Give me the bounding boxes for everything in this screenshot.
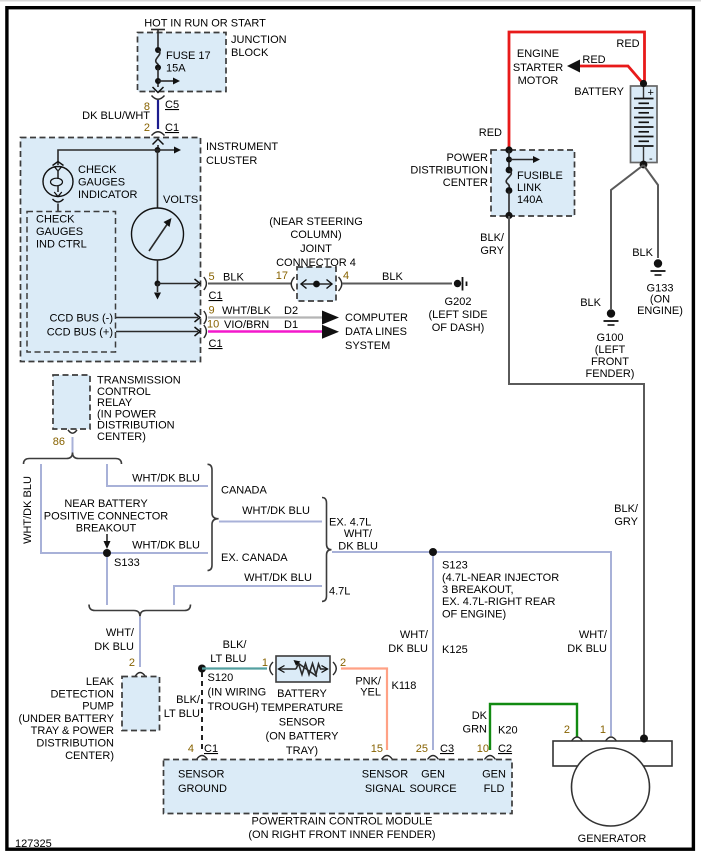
svg-text:G202: G202 bbox=[445, 296, 472, 308]
svg-text:WHT/DK BLU: WHT/DK BLU bbox=[132, 473, 200, 485]
svg-text:WHT/DK BLU: WHT/DK BLU bbox=[244, 572, 312, 584]
svg-text:DK BLU/WHT: DK BLU/WHT bbox=[82, 110, 150, 122]
svg-text:GENERATOR: GENERATOR bbox=[578, 833, 647, 845]
svg-text:PUMP: PUMP bbox=[82, 701, 114, 713]
wire BLK/LT BLU (teal) bbox=[202, 667, 267, 669]
svg-text:ENGINE): ENGINE) bbox=[637, 305, 683, 317]
svg-text:TROUGH): TROUGH) bbox=[208, 701, 259, 713]
brace bottom (gather) bbox=[89, 605, 191, 617]
svg-text:HOT IN RUN OR START: HOT IN RUN OR START bbox=[144, 18, 266, 30]
wire to indicator lamp bbox=[58, 150, 158, 165]
svg-text:140A: 140A bbox=[517, 194, 543, 206]
ground G133 bbox=[651, 259, 666, 275]
ground G202 bbox=[454, 277, 467, 291]
svg-text:(4.7L-NEAR INJECTOR: (4.7L-NEAR INJECTOR bbox=[442, 572, 559, 584]
wire DK BLU/WHT bbox=[157, 100, 159, 129]
svg-text:C5: C5 bbox=[165, 99, 179, 111]
svg-text:CENTER): CENTER) bbox=[65, 750, 114, 762]
svg-text:CLUSTER: CLUSTER bbox=[206, 155, 257, 167]
svg-text:S120: S120 bbox=[208, 672, 234, 684]
svg-text:TRAY): TRAY) bbox=[286, 745, 318, 757]
svg-text:GRY: GRY bbox=[614, 516, 638, 528]
arrowhead exiting junction block bbox=[153, 87, 164, 93]
svg-text:C3: C3 bbox=[440, 743, 454, 755]
svg-text:OF ENGINE): OF ENGINE) bbox=[442, 608, 506, 620]
brace right 2 (engine split) bbox=[322, 498, 332, 602]
svg-text:DK BLU: DK BLU bbox=[338, 541, 378, 553]
battery temperature sensor box bbox=[276, 656, 330, 682]
svg-text:G100: G100 bbox=[597, 332, 624, 344]
lower node bbox=[155, 281, 161, 287]
svg-text:+: + bbox=[648, 87, 654, 99]
svg-text:COMPUTER: COMPUTER bbox=[345, 312, 408, 324]
svg-text:DK BLU: DK BLU bbox=[388, 643, 428, 655]
connector arcs pin 9 bbox=[204, 311, 207, 324]
svg-text:S133: S133 bbox=[114, 557, 140, 569]
svg-text:RED: RED bbox=[582, 54, 605, 66]
wire gauge to lower node bbox=[157, 260, 159, 284]
branch arrow to pin 5 bbox=[158, 283, 199, 285]
generator circle bbox=[572, 748, 650, 826]
svg-text:4: 4 bbox=[343, 270, 349, 282]
junction node with branch arrow bbox=[155, 78, 180, 85]
svg-text:DK: DK bbox=[472, 710, 488, 722]
svg-text:LT BLU: LT BLU bbox=[210, 653, 246, 665]
svg-text:NEAR BATTERY: NEAR BATTERY bbox=[64, 498, 148, 510]
continuation arrow down bbox=[157, 284, 159, 293]
wire EX CANADA from S133 bbox=[107, 552, 208, 554]
connector arc C5 bbox=[152, 96, 165, 100]
svg-text:BLK: BLK bbox=[580, 297, 601, 309]
wire brace1 out bbox=[219, 521, 322, 523]
brace right 1 (canada/ex-canada) bbox=[208, 464, 219, 570]
wire K125 down to PCM bbox=[432, 552, 434, 750]
svg-text:CCD BUS (+): CCD BUS (+) bbox=[47, 327, 113, 339]
wire BLK to G202 bbox=[342, 283, 452, 285]
leak pump pin bump bbox=[135, 673, 146, 677]
svg-text:DETECTION: DETECTION bbox=[50, 688, 114, 700]
starter arrowhead bbox=[567, 60, 580, 73]
svg-text:POWERTRAIN CONTROL MODULE: POWERTRAIN CONTROL MODULE bbox=[252, 816, 433, 828]
svg-text:VOLTS: VOLTS bbox=[163, 194, 198, 206]
svg-text:(LEFT: (LEFT bbox=[595, 344, 626, 356]
wire DK GRN bbox=[490, 704, 577, 750]
svg-text:FRONT: FRONT bbox=[591, 356, 629, 368]
svg-text:OF DASH): OF DASH) bbox=[432, 322, 485, 334]
wire VIO/BRN bbox=[208, 330, 322, 333]
volts gauge bbox=[132, 208, 184, 260]
svg-text:GEN: GEN bbox=[421, 769, 445, 781]
svg-text:TEMPERATURE: TEMPERATURE bbox=[261, 702, 343, 714]
svg-text:CHECK: CHECK bbox=[78, 164, 117, 176]
svg-text:RELAY: RELAY bbox=[97, 397, 133, 409]
svg-text:127325: 127325 bbox=[15, 838, 52, 850]
wire hot bus tick bbox=[151, 29, 165, 31]
arrowhead entering cluster bbox=[153, 139, 164, 145]
check gauges ind ctrl box bbox=[27, 212, 116, 353]
svg-text:SENSOR: SENSOR bbox=[362, 769, 409, 781]
svg-text:EX. 4.7L-RIGHT REAR: EX. 4.7L-RIGHT REAR bbox=[442, 596, 556, 608]
svg-text:WHT/: WHT/ bbox=[344, 528, 373, 540]
svg-text:RED: RED bbox=[479, 127, 502, 139]
wire 4.7L branch bbox=[174, 586, 322, 605]
svg-text:2: 2 bbox=[340, 657, 346, 669]
wire BLK to joint connector bbox=[208, 283, 291, 285]
svg-text:POWER: POWER bbox=[446, 152, 488, 164]
svg-text:86: 86 bbox=[53, 436, 65, 448]
svg-text:CENTER: CENTER bbox=[443, 177, 488, 189]
junction block box bbox=[138, 33, 227, 92]
wire left branch WHT/DK BLU bbox=[41, 464, 107, 553]
svg-text:DISTRIBUTION: DISTRIBUTION bbox=[97, 420, 175, 432]
generator pin bumps bbox=[572, 737, 583, 741]
svg-text:INSTRUMENT: INSTRUMENT bbox=[206, 141, 278, 153]
svg-text:WHT/DK BLU: WHT/DK BLU bbox=[242, 505, 310, 517]
svg-text:17: 17 bbox=[276, 270, 288, 282]
svg-text:BREAKOUT: BREAKOUT bbox=[76, 523, 137, 535]
svg-text:DATA LINES: DATA LINES bbox=[345, 326, 407, 338]
svg-text:K125: K125 bbox=[442, 644, 468, 656]
svg-text:4: 4 bbox=[188, 743, 194, 755]
wire RED to starter bbox=[578, 66, 644, 84]
svg-text:SENSOR: SENSOR bbox=[178, 769, 225, 781]
svg-text:(ON BATTERY: (ON BATTERY bbox=[266, 731, 340, 743]
svg-text:2: 2 bbox=[564, 724, 570, 736]
wire feed into fuse bbox=[157, 30, 159, 51]
svg-text:STARTER: STARTER bbox=[513, 62, 563, 74]
wire dashed BLK/LT BLU down bbox=[201, 672, 203, 750]
svg-text:C1: C1 bbox=[209, 290, 223, 302]
svg-text:LEAK: LEAK bbox=[86, 676, 115, 688]
thermistor symbol bbox=[279, 660, 328, 677]
wire WHT/BLK bbox=[208, 316, 322, 318]
wire node to gauge bbox=[157, 150, 159, 208]
wire relay to brace bbox=[72, 437, 74, 456]
svg-text:TRAY & POWER: TRAY & POWER bbox=[31, 725, 114, 737]
svg-text:SOURCE: SOURCE bbox=[409, 783, 456, 795]
svg-text:15: 15 bbox=[371, 743, 383, 755]
svg-text:D1: D1 bbox=[284, 319, 298, 331]
svg-text:K118: K118 bbox=[392, 680, 417, 692]
svg-text:MOTOR: MOTOR bbox=[518, 75, 559, 87]
svg-text:BLK: BLK bbox=[223, 272, 244, 284]
connector arcs pin 5 bbox=[204, 277, 207, 290]
svg-text:FLD: FLD bbox=[484, 783, 505, 795]
svg-text:5: 5 bbox=[209, 271, 215, 283]
wire brace2 out to S123 bbox=[332, 551, 433, 553]
svg-text:BLK/: BLK/ bbox=[223, 639, 248, 651]
wire S133 down bbox=[106, 553, 108, 605]
svg-text:DISTRIBUTION: DISTRIBUTION bbox=[410, 165, 488, 177]
svg-text:IND CTRL: IND CTRL bbox=[36, 239, 87, 251]
node red to fusible link bbox=[505, 146, 512, 153]
svg-text:10: 10 bbox=[477, 743, 489, 755]
computer data lines arrow (lower) bbox=[322, 325, 339, 339]
connector arc C1 bbox=[152, 132, 165, 136]
svg-text:C1: C1 bbox=[204, 743, 218, 755]
svg-text:LINK: LINK bbox=[517, 182, 542, 194]
svg-text:(IN WIRING: (IN WIRING bbox=[208, 687, 267, 699]
splice S133 bbox=[103, 549, 111, 557]
transmission control relay box bbox=[53, 375, 90, 429]
arrow to S133 bbox=[106, 534, 108, 542]
svg-text:CENTER): CENTER) bbox=[97, 431, 146, 443]
wire lamp to ctrl box bbox=[57, 204, 59, 212]
svg-text:YEL: YEL bbox=[360, 687, 381, 699]
svg-text:DK BLU: DK BLU bbox=[94, 641, 134, 653]
wire battery to G100 bbox=[611, 165, 644, 309]
svg-text:CONTROL: CONTROL bbox=[97, 386, 151, 398]
svg-text:WHT/DK BLU: WHT/DK BLU bbox=[132, 540, 200, 552]
svg-text:BLK/: BLK/ bbox=[480, 232, 505, 244]
svg-text:1: 1 bbox=[262, 657, 268, 669]
svg-text:WHT/: WHT/ bbox=[579, 629, 608, 641]
svg-text:VIO/BRN: VIO/BRN bbox=[224, 319, 269, 331]
svg-text:25: 25 bbox=[416, 743, 428, 755]
ccd bus minus lead bbox=[116, 317, 198, 319]
splice S120 bbox=[198, 665, 206, 673]
leak detection pump box bbox=[122, 677, 160, 731]
node BLK/GRY at generator bbox=[640, 735, 648, 743]
joint connector 4 box bbox=[297, 267, 336, 301]
connector arcs pin 10 bbox=[204, 325, 207, 338]
computer data lines arrow (upper) bbox=[322, 311, 339, 325]
svg-text:BLK: BLK bbox=[632, 247, 653, 259]
svg-text:1: 1 bbox=[600, 724, 606, 736]
svg-text:LT BLU: LT BLU bbox=[164, 708, 200, 720]
wire into cluster node bbox=[157, 145, 159, 150]
svg-text:BLK/: BLK/ bbox=[614, 503, 639, 515]
fuse 17 bbox=[155, 47, 211, 75]
wire S123 to generator bbox=[433, 552, 611, 736]
node with branch arrow bbox=[155, 147, 182, 154]
wire PNK/YEL bbox=[341, 669, 387, 751]
svg-text:C1: C1 bbox=[165, 122, 179, 134]
svg-text:RED: RED bbox=[616, 38, 639, 50]
svg-text:CANADA: CANADA bbox=[221, 485, 268, 497]
wire BLK/GRY bbox=[509, 216, 644, 741]
svg-text:S123: S123 bbox=[442, 559, 468, 571]
svg-text:SYSTEM: SYSTEM bbox=[345, 340, 390, 352]
fusible link bbox=[505, 150, 562, 219]
svg-text:(ON RIGHT FRONT INNER FENDER): (ON RIGHT FRONT INNER FENDER) bbox=[248, 829, 435, 841]
svg-text:WHT/: WHT/ bbox=[400, 629, 429, 641]
svg-text:4.7L: 4.7L bbox=[329, 586, 350, 598]
svg-text:2: 2 bbox=[129, 657, 135, 669]
check gauges indicator lamp bbox=[43, 162, 73, 203]
battery bbox=[631, 80, 658, 169]
svg-text:D2: D2 bbox=[284, 305, 298, 317]
svg-text:BATTERY: BATTERY bbox=[277, 688, 327, 700]
svg-text:JOINT: JOINT bbox=[300, 243, 332, 255]
svg-text:3 BREAKOUT,: 3 BREAKOUT, bbox=[442, 584, 514, 596]
wire battery to G133 bbox=[644, 165, 659, 258]
top hairline bbox=[0, 0, 701, 2]
wire fuse to junction exit bbox=[157, 68, 159, 88]
joint connector arcs bbox=[291, 277, 294, 291]
ground G100 bbox=[604, 309, 619, 325]
svg-text:SIGNAL: SIGNAL bbox=[365, 783, 405, 795]
powertrain control module box bbox=[164, 760, 513, 814]
wire right branch to CANADA bbox=[107, 464, 208, 486]
power distribution center box bbox=[491, 150, 575, 216]
wire brace bottom to leak pump bbox=[139, 617, 141, 667]
battery temp sensor pin 2 bbox=[333, 662, 336, 675]
brace top (gather) bbox=[24, 453, 122, 465]
svg-text:15A: 15A bbox=[166, 63, 186, 75]
relay pin 86 bump bbox=[68, 430, 77, 433]
svg-text:BLOCK: BLOCK bbox=[231, 47, 269, 59]
PCM pin bumps bbox=[197, 756, 208, 760]
svg-text:(UNDER BATTERY: (UNDER BATTERY bbox=[18, 713, 114, 725]
ccd bus plus lead bbox=[116, 331, 198, 333]
svg-text:CHECK: CHECK bbox=[36, 214, 75, 226]
svg-text:GRN: GRN bbox=[463, 724, 488, 736]
svg-text:DISTRIBUTION: DISTRIBUTION bbox=[36, 738, 114, 750]
svg-text:-: - bbox=[649, 153, 653, 165]
svg-text:10: 10 bbox=[207, 319, 219, 331]
svg-text:BLK: BLK bbox=[382, 271, 403, 283]
svg-text:GAUGES: GAUGES bbox=[78, 177, 125, 189]
svg-text:POSITIVE CONNECTOR: POSITIVE CONNECTOR bbox=[44, 511, 169, 523]
svg-text:DK BLU: DK BLU bbox=[567, 643, 607, 655]
splice S123 bbox=[429, 548, 437, 556]
svg-text:GAUGES: GAUGES bbox=[36, 226, 83, 238]
svg-text:INDICATOR: INDICATOR bbox=[78, 189, 138, 201]
svg-text:BLK/: BLK/ bbox=[176, 694, 201, 706]
instrument cluster box bbox=[21, 138, 201, 362]
svg-text:(NEAR STEERING: (NEAR STEERING bbox=[269, 216, 363, 228]
svg-text:BATTERY: BATTERY bbox=[574, 86, 624, 98]
svg-text:CCD BUS (-): CCD BUS (-) bbox=[49, 313, 113, 325]
svg-text:FUSE 17: FUSE 17 bbox=[166, 50, 211, 62]
wire RED battery feed bbox=[509, 32, 645, 150]
joint connector internal bus bbox=[301, 280, 332, 289]
svg-text:JUNCTION: JUNCTION bbox=[231, 34, 287, 46]
svg-text:WHT/DK BLU: WHT/DK BLU bbox=[22, 476, 34, 544]
generator box bbox=[553, 741, 672, 766]
svg-text:FENDER): FENDER) bbox=[586, 368, 635, 380]
svg-text:GROUND: GROUND bbox=[178, 783, 227, 795]
svg-text:C1: C1 bbox=[209, 338, 223, 350]
svg-text:WHT/BLK: WHT/BLK bbox=[222, 305, 272, 317]
svg-text:2: 2 bbox=[144, 122, 150, 134]
svg-text:K20: K20 bbox=[498, 725, 518, 737]
svg-text:(LEFT SIDE: (LEFT SIDE bbox=[428, 309, 487, 321]
svg-text:GEN: GEN bbox=[482, 769, 506, 781]
svg-text:TRANSMISSION: TRANSMISSION bbox=[97, 375, 181, 387]
svg-text:SENSOR: SENSOR bbox=[279, 716, 326, 728]
svg-text:9: 9 bbox=[209, 305, 215, 317]
svg-text:ENGINE: ENGINE bbox=[517, 48, 559, 60]
svg-text:EX. CANADA: EX. CANADA bbox=[221, 552, 288, 564]
svg-text:COLUMN): COLUMN) bbox=[290, 229, 341, 241]
svg-text:FUSIBLE: FUSIBLE bbox=[517, 170, 563, 182]
svg-text:EX. 4.7L: EX. 4.7L bbox=[329, 517, 371, 529]
svg-text:(IN POWER: (IN POWER bbox=[97, 408, 156, 420]
svg-text:C2: C2 bbox=[498, 743, 512, 755]
svg-text:WHT/: WHT/ bbox=[106, 627, 135, 639]
svg-text:GRY: GRY bbox=[480, 245, 504, 257]
